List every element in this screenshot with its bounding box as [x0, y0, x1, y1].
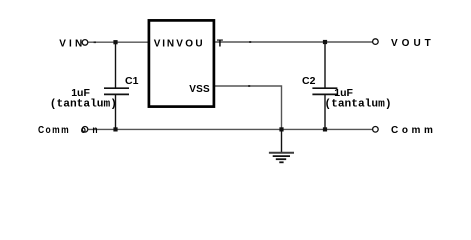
capacitor C1 plates — [104, 87, 129, 89]
wire VSS pin to ground corner — [215, 86, 282, 129]
svg-text:1uF: 1uF — [71, 87, 90, 99]
node junction bottom rail / VSS+ground — [279, 127, 283, 131]
svg-text:C1: C1 — [125, 75, 139, 87]
node Common left terminal circle — [82, 127, 88, 133]
svg-text:VIN: VIN — [154, 39, 176, 50]
wire top rail left (VIN terminal to regulator) — [85, 41, 148, 43]
node Comm right terminal circle — [373, 127, 379, 133]
svg-text:C2: C2 — [302, 75, 316, 87]
wire ground stem — [281, 129, 283, 152]
wire bottom common rail — [85, 128, 375, 130]
node junction top rail / C1 — [113, 40, 117, 44]
capacitor C2 plates — [312, 87, 337, 89]
svg-text:(tantalum): (tantalum) — [50, 98, 117, 110]
node VIN terminal circle — [82, 40, 88, 46]
svg-text:VIN: VIN — [59, 39, 85, 50]
node junction top rail / C2 — [323, 40, 327, 44]
svg-text:VOU: VOU — [176, 39, 205, 50]
wire C1 branch vertical — [115, 42, 117, 87]
node junction bottom rail / C1 — [113, 127, 117, 131]
ground symbol — [269, 153, 294, 163]
node tick on top rail — [249, 41, 251, 43]
node VOUT terminal circle — [373, 39, 379, 45]
op-amp U1 regulator box — [149, 20, 214, 106]
node tick left of VIN wire start — [94, 41, 96, 43]
svg-text:1uF: 1uF — [334, 87, 353, 99]
svg-text:(tantalum): (tantalum) — [324, 98, 391, 110]
svg-text:Comm: Comm — [391, 125, 437, 136]
node junction bottom rail / C2 — [323, 127, 327, 131]
svg-text:VOUT: VOUT — [391, 38, 435, 49]
svg-text:VSS: VSS — [189, 84, 210, 95]
wire top rail right (regulator VOUT to VOUT terminal) — [215, 41, 376, 43]
svg-text:T: T — [217, 39, 223, 50]
wire C2 branch vertical — [324, 42, 326, 88]
node tick on VSS wire — [248, 85, 250, 87]
